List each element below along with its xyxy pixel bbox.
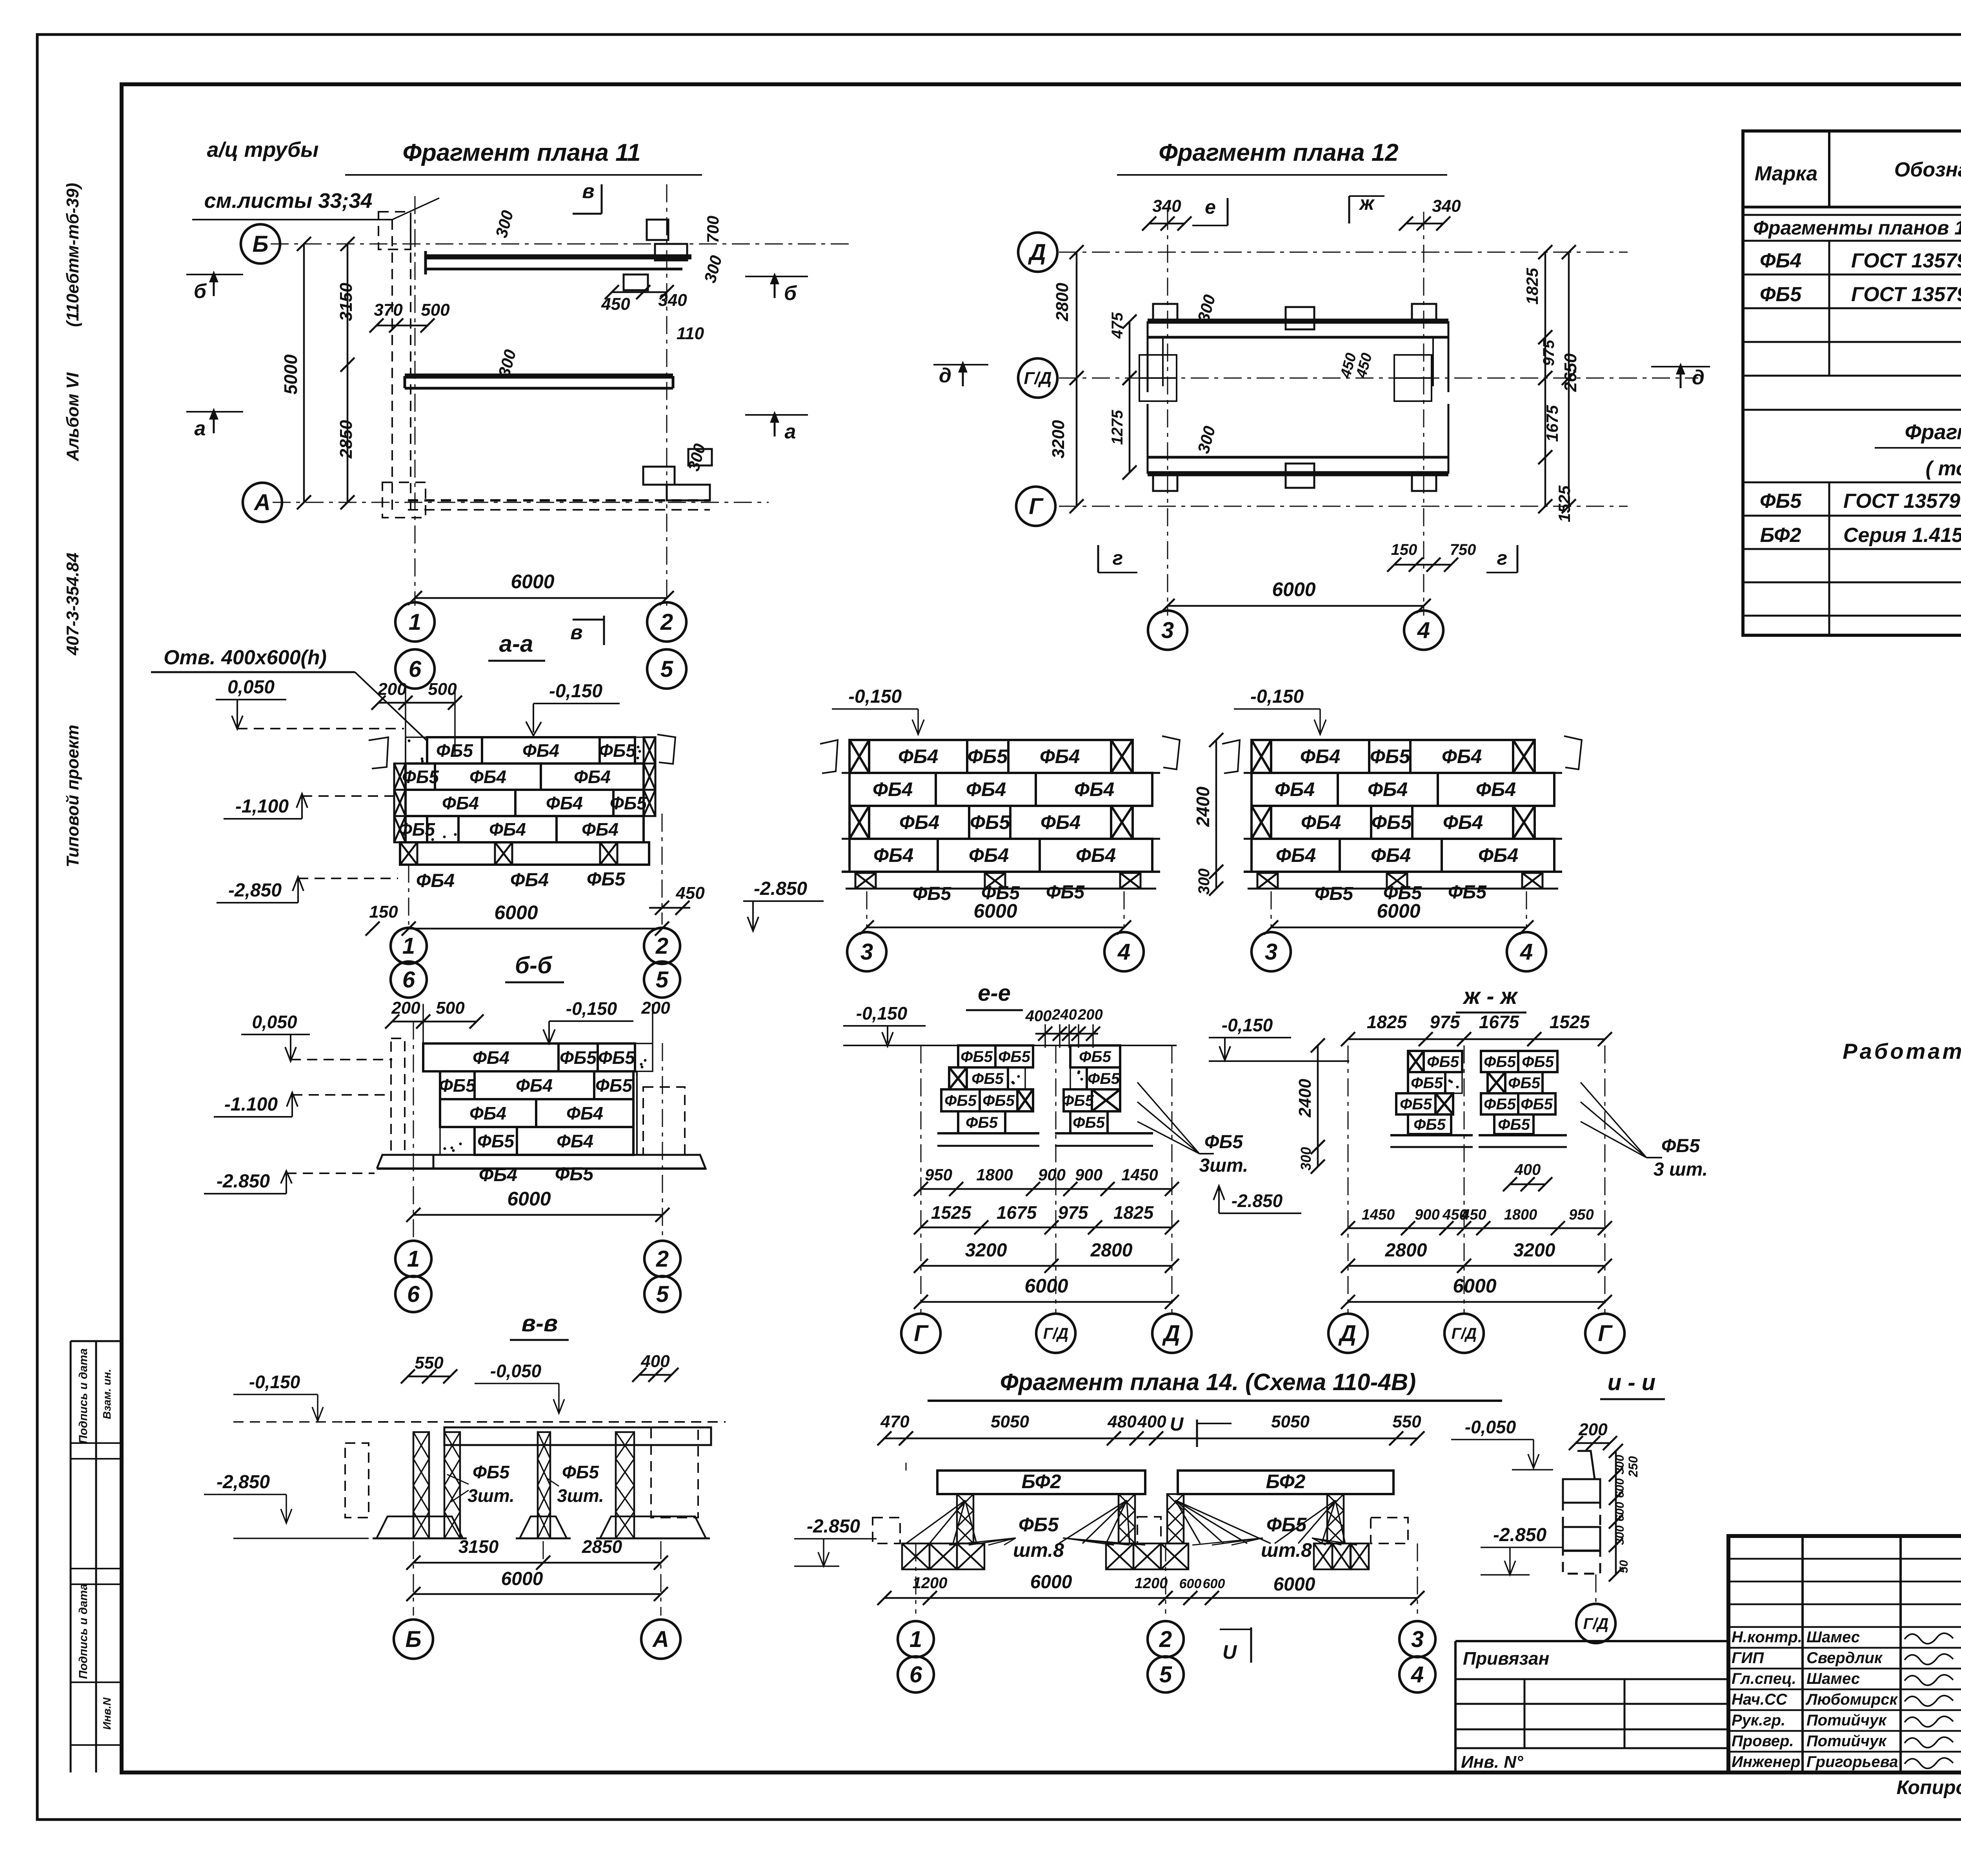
svg-text:ФБ5: ФБ5 xyxy=(944,1092,977,1109)
svg-text:Свердлик: Свердлик xyxy=(1806,1649,1883,1667)
svg-text:1: 1 xyxy=(910,1627,922,1652)
svg-text:е-е: е-е xyxy=(978,980,1011,1006)
svg-text:Г: Г xyxy=(1598,1321,1613,1346)
svg-text:110: 110 xyxy=(677,324,704,343)
svg-text:ФБ4: ФБ4 xyxy=(1371,844,1411,866)
svg-text:-2.850: -2.850 xyxy=(754,878,807,899)
svg-text:370: 370 xyxy=(374,300,403,320)
svg-text:в: в xyxy=(582,180,594,203)
svg-text:600: 600 xyxy=(1614,1502,1626,1522)
svg-text:ФБ5: ФБ5 xyxy=(1400,1096,1432,1113)
svg-text:ФБ5: ФБ5 xyxy=(971,1070,1004,1087)
svg-text:ФБ5: ФБ5 xyxy=(477,1131,515,1151)
svg-text:ФБ4: ФБ4 xyxy=(1276,844,1316,866)
svg-text:6: 6 xyxy=(910,1662,922,1687)
svg-text:300: 300 xyxy=(1614,1525,1626,1545)
svg-text:ФБ5: ФБ5 xyxy=(1661,1136,1700,1156)
svg-text:ГОСТ 13579-78: ГОСТ 13579-78 xyxy=(1843,490,1961,513)
svg-text:900: 900 xyxy=(1415,1207,1439,1223)
svg-text:300: 300 xyxy=(492,208,517,240)
svg-text:Копировал Грубник: Копировал Грубник xyxy=(1897,1776,1961,1798)
svg-text:2800: 2800 xyxy=(1053,283,1072,322)
svg-text:Шамес: Шамес xyxy=(1806,1670,1860,1687)
svg-text:ФБ5: ФБ5 xyxy=(1498,1116,1530,1133)
svg-text:1450: 1450 xyxy=(1362,1207,1395,1223)
svg-text:3: 3 xyxy=(1161,618,1174,643)
svg-text:Г/Д: Г/Д xyxy=(1583,1615,1609,1632)
svg-text:ФБ4: ФБ4 xyxy=(1275,778,1315,800)
svg-text:Г/Д: Г/Д xyxy=(1452,1325,1477,1342)
svg-text:6: 6 xyxy=(402,967,415,993)
svg-text:-2.850: -2.850 xyxy=(807,1516,860,1537)
svg-text:3150: 3150 xyxy=(458,1536,499,1557)
svg-text:6000: 6000 xyxy=(1377,900,1420,922)
svg-text:ФБ5: ФБ5 xyxy=(595,1075,633,1096)
svg-text:550: 550 xyxy=(415,1353,444,1372)
svg-text:ФБ5: ФБ5 xyxy=(610,793,647,813)
svg-text:ФБ4: ФБ4 xyxy=(1074,778,1114,800)
svg-text:ФБ4: ФБ4 xyxy=(469,767,506,787)
svg-text:3200: 3200 xyxy=(1513,1240,1555,1261)
svg-text:3150: 3150 xyxy=(337,283,356,321)
svg-text:ФБ4: ФБ4 xyxy=(1040,745,1080,767)
svg-text:340: 340 xyxy=(1432,196,1461,216)
svg-text:6000: 6000 xyxy=(1030,1572,1072,1592)
svg-text:б: б xyxy=(784,282,797,305)
svg-text:6: 6 xyxy=(407,1282,420,1307)
svg-text:-1.100: -1.100 xyxy=(224,1094,278,1115)
svg-text:150: 150 xyxy=(369,902,398,922)
svg-text:ФБ5: ФБ5 xyxy=(966,1114,998,1131)
svg-text:Работать совместно с лист: Работать совместно с листом 29. xyxy=(1843,1039,1961,1063)
svg-text:Фрагмент плана 14 по оси: Фрагмент плана 14 по оси Г/Д xyxy=(1905,420,1961,444)
svg-text:1800: 1800 xyxy=(1504,1207,1537,1223)
svg-text:ФБ4: ФБ4 xyxy=(899,811,939,833)
svg-text:ФБ5: ФБ5 xyxy=(1484,1096,1516,1113)
svg-text:ФБ4: ФБ4 xyxy=(1300,745,1340,767)
svg-text:1675: 1675 xyxy=(1479,1012,1520,1032)
svg-text:ФБ5: ФБ5 xyxy=(1427,1053,1459,1071)
svg-text:1675: 1675 xyxy=(997,1202,1037,1223)
svg-text:ФБ4: ФБ4 xyxy=(1301,811,1341,833)
svg-text:3: 3 xyxy=(860,939,873,965)
svg-text:Потийчук: Потийчук xyxy=(1806,1732,1887,1750)
svg-text:-0,150: -0,150 xyxy=(549,681,602,702)
svg-text:3шт.: 3шт. xyxy=(1199,1155,1248,1176)
svg-text:Инв. N°: Инв. N° xyxy=(1461,1752,1523,1772)
svg-text:ФБ4: ФБ4 xyxy=(1760,249,1801,272)
svg-text:600: 600 xyxy=(1614,1478,1626,1498)
svg-text:1825: 1825 xyxy=(1523,268,1541,305)
svg-text:975: 975 xyxy=(1430,1012,1461,1032)
svg-text:-0,050: -0,050 xyxy=(490,1361,542,1381)
svg-text:6000: 6000 xyxy=(973,900,1017,922)
svg-text:-2,850: -2,850 xyxy=(216,1472,270,1492)
svg-text:300: 300 xyxy=(684,442,709,473)
svg-text:ФБ4: ФБ4 xyxy=(510,870,549,891)
svg-text:2: 2 xyxy=(660,609,673,635)
svg-text:600: 600 xyxy=(1179,1576,1202,1591)
svg-text:450: 450 xyxy=(675,883,705,903)
svg-text:ФБ4: ФБ4 xyxy=(966,778,1006,800)
svg-text:Марка: Марка xyxy=(1755,162,1818,185)
svg-text:4: 4 xyxy=(1520,939,1533,965)
svg-text:а-а: а-а xyxy=(499,631,533,657)
svg-text:ГОСТ 13579-78: ГОСТ 13579-78 xyxy=(1851,249,1961,272)
svg-text:340: 340 xyxy=(658,291,687,310)
svg-text:ФБ4: ФБ4 xyxy=(473,1047,509,1068)
svg-text:ФБ5: ФБ5 xyxy=(1522,1053,1554,1071)
svg-text:БФ2: БФ2 xyxy=(1760,524,1801,547)
svg-text:Г: Г xyxy=(1029,494,1044,519)
svg-text:ФБ5: ФБ5 xyxy=(1760,283,1802,306)
svg-text:д: д xyxy=(939,364,951,387)
svg-text:а: а xyxy=(195,417,206,440)
svg-text:Гл.спец.: Гл.спец. xyxy=(1732,1670,1796,1687)
svg-text:ФБ4: ФБ4 xyxy=(1076,844,1116,866)
svg-text:ФБ5: ФБ5 xyxy=(1508,1074,1541,1092)
svg-text:-0,150: -0,150 xyxy=(848,686,902,707)
svg-text:0,050: 0,050 xyxy=(252,1012,297,1032)
svg-text:Рук.гр.: Рук.гр. xyxy=(1732,1712,1785,1729)
svg-text:Провер.: Провер. xyxy=(1732,1732,1794,1750)
svg-text:б: б xyxy=(194,280,207,303)
svg-text:ФБ5: ФБ5 xyxy=(473,1462,510,1482)
svg-text:ФБ4: ФБ4 xyxy=(1041,811,1081,833)
svg-text:340: 340 xyxy=(1152,196,1181,216)
svg-text:ФБ5: ФБ5 xyxy=(913,883,951,904)
svg-text:2850: 2850 xyxy=(582,1536,622,1557)
svg-text:ФБ5: ФБ5 xyxy=(587,869,626,890)
svg-text:Д: Д xyxy=(1338,1321,1356,1346)
svg-text:Фрагменты планов 11,12: Фрагменты планов 11,12 xyxy=(1753,217,1961,239)
svg-text:ФБ5: ФБ5 xyxy=(970,811,1010,833)
svg-text:ФБ4: ФБ4 xyxy=(479,1165,517,1185)
svg-text:6000: 6000 xyxy=(507,1188,551,1210)
svg-text:-2.850: -2.850 xyxy=(1232,1191,1283,1211)
svg-text:ФБ5: ФБ5 xyxy=(1315,883,1353,904)
svg-text:в-в: в-в xyxy=(522,1310,558,1336)
svg-text:Фрагмент плана 11: Фрагмент плана 11 xyxy=(403,139,641,166)
svg-text:Серия 1.415-1.8.1: Серия 1.415-1.8.1 xyxy=(1843,524,1961,547)
svg-text:а/ц трубы: а/ц трубы xyxy=(207,138,319,162)
svg-text:400: 400 xyxy=(1137,1412,1166,1431)
svg-text:ГОСТ 13579-78: ГОСТ 13579-78 xyxy=(1851,283,1961,306)
svg-text:300: 300 xyxy=(1195,869,1213,895)
svg-text:480: 480 xyxy=(1107,1412,1137,1431)
svg-text:300: 300 xyxy=(1194,424,1219,455)
svg-text:ГИП: ГИП xyxy=(1732,1649,1764,1667)
svg-text:5050: 5050 xyxy=(991,1412,1029,1431)
svg-text:ФБ5: ФБ5 xyxy=(1079,1048,1111,1065)
svg-text:Г/Д: Г/Д xyxy=(1043,1325,1069,1342)
svg-text:2: 2 xyxy=(655,933,668,959)
svg-text:750: 750 xyxy=(1450,541,1476,558)
svg-text:700: 700 xyxy=(704,216,722,243)
svg-text:550: 550 xyxy=(1392,1412,1421,1431)
svg-text:150: 150 xyxy=(1391,541,1417,558)
svg-text:2400: 2400 xyxy=(1193,786,1213,827)
svg-text:3 шт.: 3 шт. xyxy=(1654,1159,1708,1180)
svg-text:г: г xyxy=(1497,547,1508,569)
svg-text:2800: 2800 xyxy=(1090,1240,1133,1261)
svg-text:ФБ4: ФБ4 xyxy=(489,819,526,840)
svg-text:Д: Д xyxy=(1162,1321,1180,1346)
svg-text:1525: 1525 xyxy=(1550,1012,1590,1032)
svg-text:ФБ5: ФБ5 xyxy=(1760,490,1802,513)
svg-text:Григорьева: Григорьева xyxy=(1806,1753,1898,1771)
svg-text:-0,150: -0,150 xyxy=(566,998,617,1019)
svg-text:ФБ5: ФБ5 xyxy=(1062,1092,1094,1109)
svg-text:500: 500 xyxy=(436,998,465,1018)
svg-text:ФБ5: ФБ5 xyxy=(1266,1514,1307,1536)
svg-text:ФБ4: ФБ4 xyxy=(1478,844,1518,866)
svg-text:ФБ4: ФБ4 xyxy=(969,844,1009,866)
svg-text:240: 240 xyxy=(1051,1007,1077,1023)
svg-text:ФБ5: ФБ5 xyxy=(1370,745,1410,767)
svg-text:500: 500 xyxy=(428,680,457,699)
svg-text:1200: 1200 xyxy=(1135,1575,1168,1592)
svg-text:ФБ5: ФБ5 xyxy=(439,1075,476,1096)
svg-text:е: е xyxy=(1205,196,1216,218)
svg-text:ФБ4: ФБ4 xyxy=(522,740,559,761)
svg-text:2850: 2850 xyxy=(337,420,356,459)
svg-text:ФБ5: ФБ5 xyxy=(598,1047,635,1068)
svg-text:5: 5 xyxy=(660,656,673,682)
svg-text:ФБ5: ФБ5 xyxy=(1073,1114,1105,1131)
svg-text:475: 475 xyxy=(1109,312,1126,339)
svg-text:2400: 2400 xyxy=(1295,1079,1315,1118)
svg-text:ФБ5: ФБ5 xyxy=(1088,1070,1120,1087)
svg-text:-0,150: -0,150 xyxy=(1222,1015,1273,1035)
svg-text:3200: 3200 xyxy=(1049,420,1068,458)
svg-text:ФБ4: ФБ4 xyxy=(898,745,938,767)
svg-text:ФБ4: ФБ4 xyxy=(873,778,913,800)
svg-text:ФБ5: ФБ5 xyxy=(560,1047,597,1068)
svg-text:Г: Г xyxy=(914,1321,929,1346)
svg-text:5: 5 xyxy=(1159,1662,1172,1687)
svg-text:Инженер: Инженер xyxy=(1732,1753,1800,1771)
svg-text:Отв. 400х600(h): Отв. 400х600(h) xyxy=(164,646,327,669)
svg-text:3: 3 xyxy=(1265,939,1277,965)
svg-text:ФБ5: ФБ5 xyxy=(1413,1116,1446,1133)
svg-text:см.листы 33;34: см.листы 33;34 xyxy=(204,189,373,213)
svg-text:950: 950 xyxy=(1569,1207,1594,1223)
svg-text:Д: Д xyxy=(1028,240,1046,265)
svg-text:5000: 5000 xyxy=(280,354,301,394)
svg-text:ФБ5: ФБ5 xyxy=(599,740,636,761)
svg-text:Фрагмент плана 12: Фрагмент плана 12 xyxy=(1159,139,1399,166)
svg-text:шт.8: шт.8 xyxy=(1261,1539,1312,1561)
svg-text:ФБ4: ФБ4 xyxy=(574,767,611,787)
svg-text:6000: 6000 xyxy=(501,1569,543,1589)
svg-text:1525: 1525 xyxy=(1555,485,1574,522)
svg-text:6000: 6000 xyxy=(1273,1574,1315,1595)
svg-text:ФБ4: ФБ4 xyxy=(582,819,618,840)
svg-text:4: 4 xyxy=(1417,618,1430,643)
svg-text:ФБ5: ФБ5 xyxy=(562,1462,599,1482)
svg-text:6000: 6000 xyxy=(511,571,554,593)
svg-text:1: 1 xyxy=(409,609,421,635)
svg-text:ФБ5: ФБ5 xyxy=(960,1048,993,1065)
svg-text:-2.850: -2.850 xyxy=(216,1171,270,1192)
svg-text:-1,100: -1,100 xyxy=(235,796,289,817)
svg-text:500: 500 xyxy=(421,300,450,320)
svg-text:-0,050: -0,050 xyxy=(1465,1417,1516,1437)
svg-text:-2,850: -2,850 xyxy=(228,880,282,901)
svg-text:Нач.СС: Нач.СС xyxy=(1732,1691,1788,1708)
svg-text:ФБ4: ФБ4 xyxy=(873,844,913,866)
svg-text:ФБ4: ФБ4 xyxy=(416,871,455,891)
svg-text:3шт.: 3шт. xyxy=(468,1485,515,1506)
svg-text:Фрагмент плана 14. (Схема: Фрагмент плана 14. (Схема 110-4В) xyxy=(1000,1369,1416,1395)
svg-text:Потийчук: Потийчук xyxy=(1806,1712,1887,1729)
svg-text:400: 400 xyxy=(1025,1007,1052,1025)
svg-text:а: а xyxy=(785,420,796,443)
svg-text:407-3-354.84: 407-3-354.84 xyxy=(63,553,82,656)
svg-text:450: 450 xyxy=(1461,1207,1486,1223)
svg-text:ФБ4: ФБ4 xyxy=(1476,778,1516,800)
svg-text:ФБ4: ФБ4 xyxy=(469,1103,506,1123)
svg-text:Альбом VI: Альбом VI xyxy=(63,372,82,462)
svg-text:ФБ5: ФБ5 xyxy=(1484,1053,1516,1071)
svg-text:5050: 5050 xyxy=(1271,1412,1310,1431)
svg-text:Любомирск: Любомирск xyxy=(1805,1691,1898,1708)
svg-text:400: 400 xyxy=(1514,1161,1541,1178)
svg-text:ФБ4: ФБ4 xyxy=(546,793,583,813)
svg-text:Подпись и дата: Подпись и дата xyxy=(77,1583,90,1679)
svg-text:250: 250 xyxy=(1626,1456,1640,1478)
svg-text:U: U xyxy=(1222,1641,1237,1663)
svg-text:2: 2 xyxy=(1159,1627,1172,1652)
svg-text:1275: 1275 xyxy=(1109,410,1126,445)
svg-text:ФБ4: ФБ4 xyxy=(566,1103,603,1123)
svg-text:975: 975 xyxy=(1540,340,1557,366)
svg-text:Шамес: Шамес xyxy=(1806,1629,1860,1646)
svg-text:200: 200 xyxy=(641,998,670,1018)
svg-text:6000: 6000 xyxy=(1453,1275,1496,1297)
svg-text:6: 6 xyxy=(409,656,422,682)
svg-text:3шт.: 3шт. xyxy=(557,1485,604,1506)
svg-text:1825: 1825 xyxy=(1113,1202,1154,1223)
svg-text:900: 900 xyxy=(1038,1165,1066,1184)
svg-text:шт.8: шт.8 xyxy=(1013,1539,1064,1561)
svg-text:ФБ5: ФБ5 xyxy=(968,745,1008,767)
svg-text:А: А xyxy=(253,490,271,515)
svg-text:975: 975 xyxy=(1058,1202,1089,1223)
svg-text:Б: Б xyxy=(252,231,268,257)
svg-text:ФБ4: ФБ4 xyxy=(442,793,479,813)
svg-text:Взам. ин.: Взам. ин. xyxy=(101,1369,113,1419)
svg-text:ФБ5: ФБ5 xyxy=(998,1048,1031,1065)
svg-text:300: 300 xyxy=(1298,1147,1314,1171)
svg-text:1: 1 xyxy=(407,1246,420,1272)
svg-text:Привязан: Привязан xyxy=(1463,1648,1549,1669)
svg-text:Б: Б xyxy=(405,1627,421,1652)
svg-text:Подпись и дата: Подпись и дата xyxy=(77,1348,90,1443)
svg-text:2650: 2650 xyxy=(1561,353,1580,392)
svg-text:ФБ5: ФБ5 xyxy=(1448,882,1487,903)
svg-text:300: 300 xyxy=(1614,1455,1626,1474)
svg-text:4: 4 xyxy=(1117,939,1130,965)
svg-text:ФБ5: ФБ5 xyxy=(1204,1132,1243,1153)
svg-text:ФБ5: ФБ5 xyxy=(1019,1514,1059,1536)
svg-text:1: 1 xyxy=(402,933,415,959)
svg-text:6000: 6000 xyxy=(494,902,538,923)
svg-text:ФБ4: ФБ4 xyxy=(1368,778,1408,800)
svg-text:Типовой проект: Типовой проект xyxy=(63,725,82,867)
svg-text:3: 3 xyxy=(1411,1627,1424,1652)
svg-text:Обозначение: Обозначение xyxy=(1894,158,1961,181)
svg-text:ФБ5: ФБ5 xyxy=(1521,1096,1553,1113)
svg-text:50: 50 xyxy=(1617,1560,1630,1573)
svg-text:2: 2 xyxy=(656,1246,669,1272)
svg-text:1200: 1200 xyxy=(913,1574,948,1592)
svg-text:1800: 1800 xyxy=(976,1165,1013,1184)
svg-text:(110ебтм-тб-39): (110ебтм-тб-39) xyxy=(63,183,82,327)
svg-text:0,050: 0,050 xyxy=(227,677,275,698)
svg-text:-0,150: -0,150 xyxy=(249,1372,300,1392)
svg-text:ФБ5: ФБ5 xyxy=(1411,1074,1443,1092)
svg-text:3200: 3200 xyxy=(965,1240,1007,1261)
svg-text:( только для схемы 110-4В): ( только для схемы 110-4В) xyxy=(1926,457,1961,480)
svg-text:1525: 1525 xyxy=(931,1202,972,1223)
svg-text:д: д xyxy=(1692,366,1705,389)
svg-text:Инв.N: Инв.N xyxy=(101,1697,113,1730)
svg-text:ФБ4: ФБ4 xyxy=(1443,811,1483,833)
svg-text:ж - ж: ж - ж xyxy=(1463,983,1519,1009)
svg-text:ФБ4: ФБ4 xyxy=(557,1131,593,1151)
svg-text:ФБ5: ФБ5 xyxy=(982,1092,1015,1109)
svg-text:Г/Д: Г/Д xyxy=(1024,369,1051,388)
svg-text:200: 200 xyxy=(391,998,420,1018)
svg-text:ФБ5: ФБ5 xyxy=(436,740,473,761)
svg-text:б-б: б-б xyxy=(515,952,553,978)
svg-text:-0,150: -0,150 xyxy=(1250,686,1304,707)
svg-text:5: 5 xyxy=(656,1282,669,1307)
svg-text:6000: 6000 xyxy=(1024,1275,1068,1297)
svg-text:900: 900 xyxy=(1075,1165,1102,1184)
svg-text:БФ2: БФ2 xyxy=(1022,1471,1061,1492)
svg-text:-0,150: -0,150 xyxy=(856,1003,908,1023)
svg-text:4: 4 xyxy=(1411,1662,1424,1687)
svg-text:г: г xyxy=(1113,547,1123,569)
svg-text:U: U xyxy=(1170,1414,1184,1435)
svg-text:А: А xyxy=(652,1627,669,1652)
svg-text:-2.850: -2.850 xyxy=(1493,1525,1546,1545)
svg-text:ФБ5: ФБ5 xyxy=(555,1164,594,1185)
svg-text:ФБ5: ФБ5 xyxy=(1372,811,1412,833)
svg-text:в: в xyxy=(570,621,582,644)
svg-text:600: 600 xyxy=(1203,1576,1225,1591)
svg-text:2800: 2800 xyxy=(1385,1240,1427,1261)
svg-text:200: 200 xyxy=(1077,1007,1102,1023)
svg-text:1825: 1825 xyxy=(1367,1012,1408,1032)
svg-text:6000: 6000 xyxy=(1272,578,1315,600)
svg-text:5: 5 xyxy=(656,967,669,993)
svg-text:1450: 1450 xyxy=(1121,1165,1158,1184)
svg-text:300: 300 xyxy=(700,253,726,285)
svg-text:ФБ5: ФБ5 xyxy=(1046,882,1085,903)
svg-text:и - и: и - и xyxy=(1608,1370,1655,1395)
svg-text:Н.контр.: Н.контр. xyxy=(1732,1629,1802,1646)
svg-text:ФБ4: ФБ4 xyxy=(516,1075,553,1096)
svg-text:200: 200 xyxy=(377,680,407,699)
svg-text:БФ2: БФ2 xyxy=(1266,1471,1306,1492)
svg-text:950: 950 xyxy=(925,1165,952,1184)
svg-text:470: 470 xyxy=(880,1412,910,1431)
svg-text:ФБ4: ФБ4 xyxy=(1442,745,1482,767)
